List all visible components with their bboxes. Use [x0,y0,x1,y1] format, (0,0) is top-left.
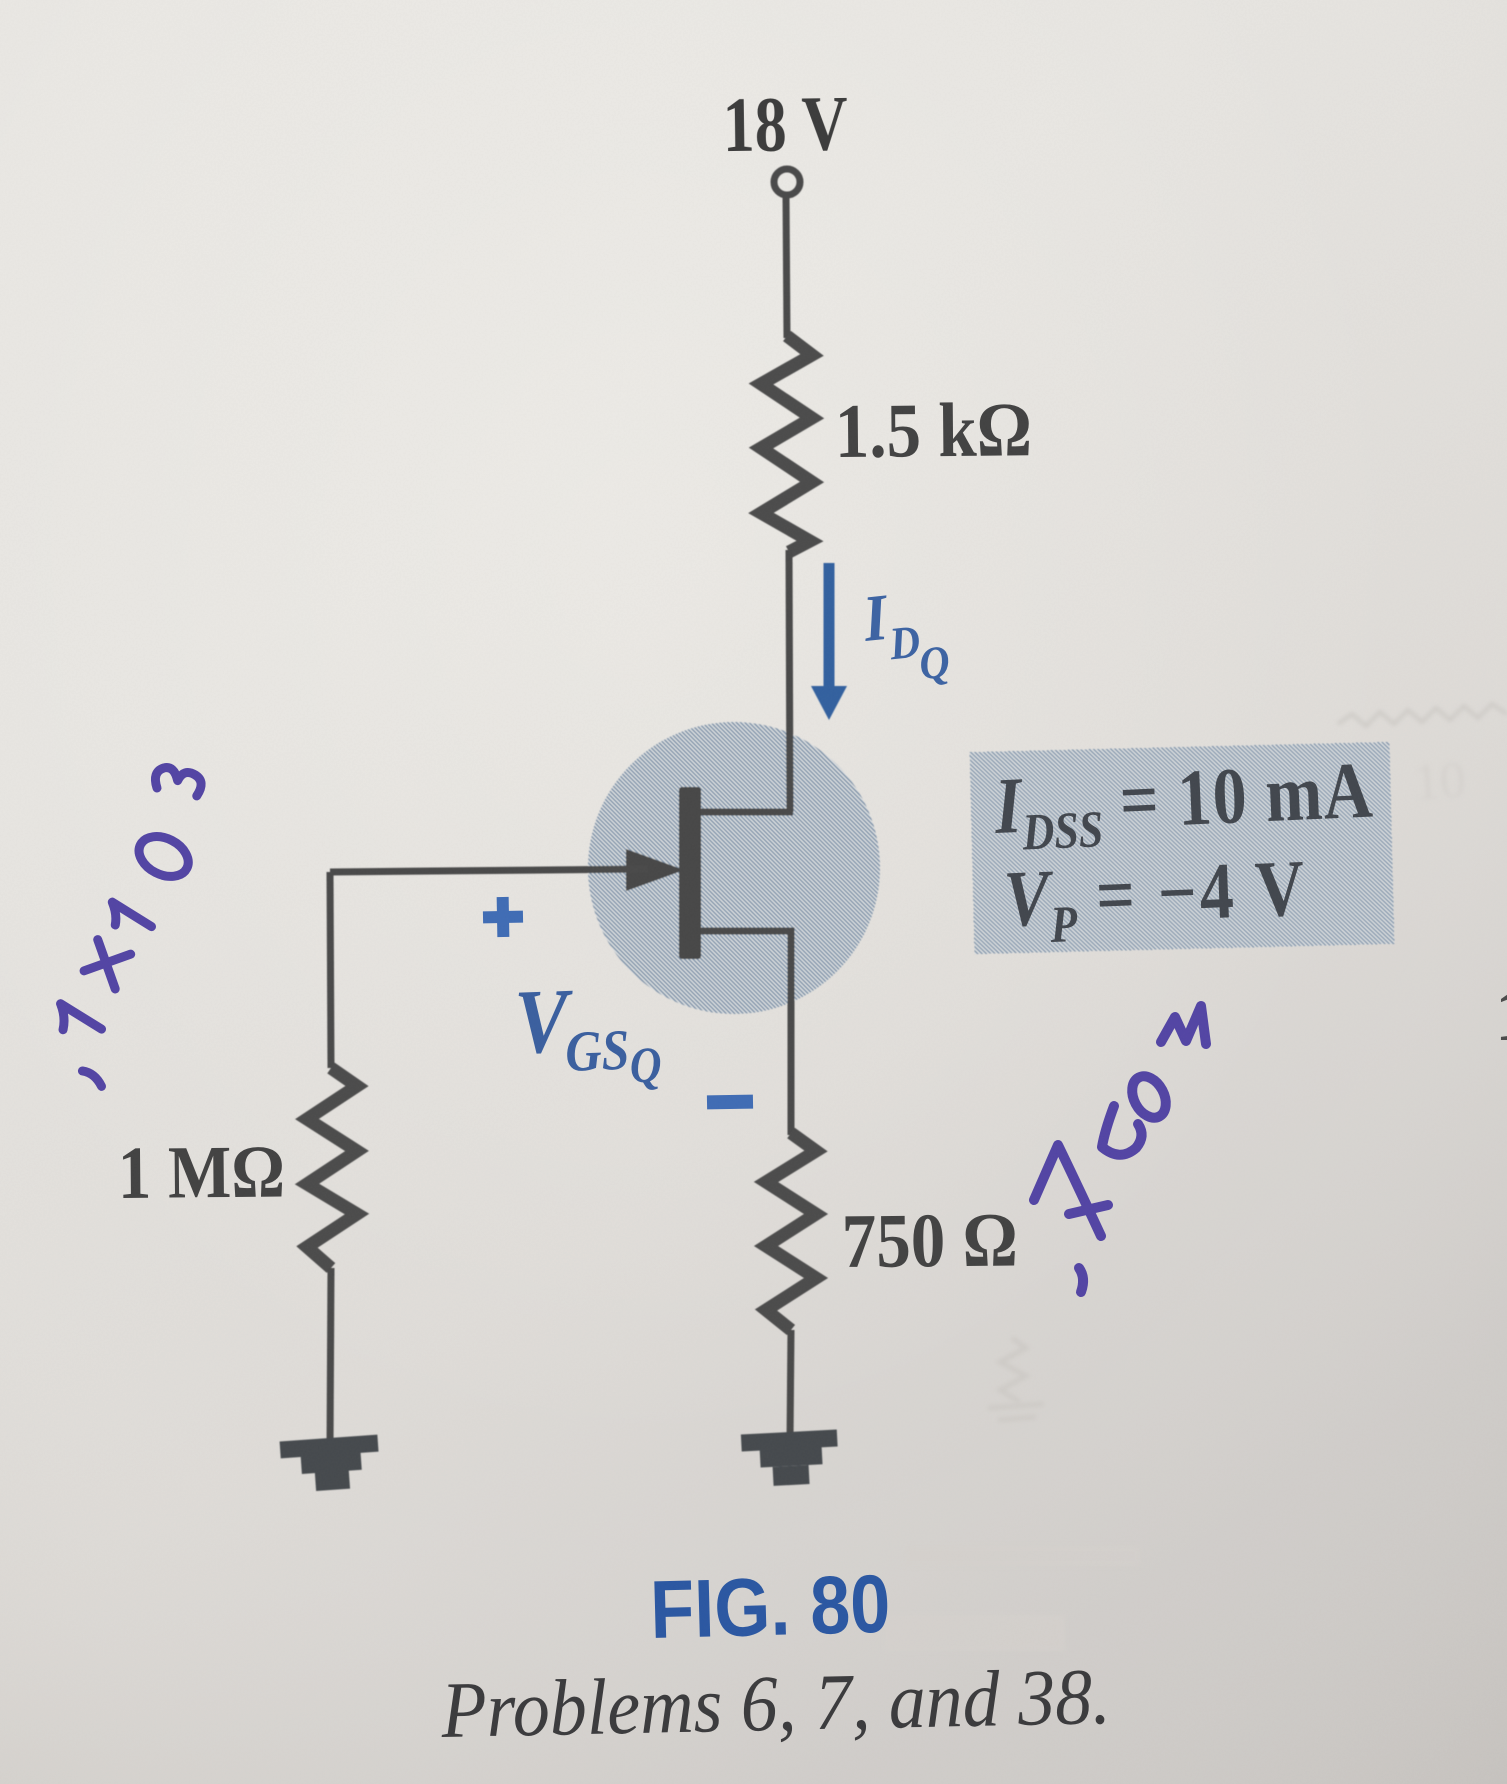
wire RD to drain [789,550,790,812]
label plus sign of VGSQ [483,897,524,938]
wire supply to RD [786,196,787,338]
resistor RS 750 Ohm [766,1133,816,1330]
wire gate [330,869,648,872]
ground (right, under RS) [741,1430,840,1488]
wire RS to ground [790,1330,791,1440]
node VDD terminal (18 V supply) [774,169,800,195]
resistor RG 1 MOhm [307,1068,357,1268]
transistor Q1 JFET shaded circle [588,722,880,1014]
wire gate to RG [330,872,331,1068]
ghost resistor show-through top right [1338,704,1507,726]
ground (left, under RG) [280,1435,381,1494]
transistor Q1 gate arrowhead [626,849,684,891]
handwritten annotation 750 (right, rotated) [1034,1006,1206,1292]
current arrow IDQ [824,563,835,689]
ghost caption show-through [905,1546,1140,1566]
label minus sign of VGSQ [707,1095,753,1110]
transistor Q1 source lead [701,931,791,1135]
device parameter box [970,742,1395,954]
transistor Q1 drain lead [701,809,793,816]
transistor Q1 channel bar [679,787,701,959]
ghost resistor show-through bottom middle [1000,1338,1026,1402]
resistor RD 1.5 kOhm [761,336,812,552]
wire RG to ground [330,1268,331,1447]
handwritten annotation 1x10^3 (left, rotated) [19,759,247,1086]
